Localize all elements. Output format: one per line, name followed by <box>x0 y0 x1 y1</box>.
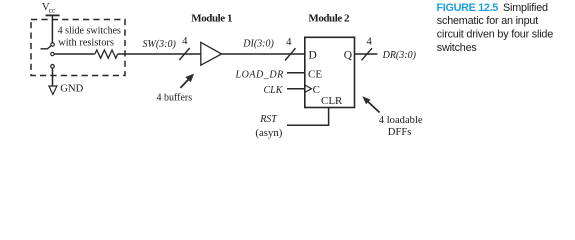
svg-text:Q: Q <box>344 49 353 61</box>
svg-text:DFFs: DFFs <box>388 127 412 138</box>
svg-text:CLR: CLR <box>321 95 343 107</box>
svg-text:switches: switches <box>437 42 478 54</box>
svg-text:GND: GND <box>60 83 83 94</box>
svg-text:D: D <box>309 49 317 61</box>
svg-text:FIGURE 12.5Simplified: FIGURE 12.5Simplified <box>437 2 549 14</box>
svg-text:Module 1: Module 1 <box>191 13 232 25</box>
svg-text:SW(3:0): SW(3:0) <box>143 39 177 50</box>
svg-text:DI(3:0): DI(3:0) <box>242 38 274 49</box>
svg-text:DR(3:0): DR(3:0) <box>382 50 417 61</box>
svg-text:Module 2: Module 2 <box>308 13 350 25</box>
svg-text:(asyn): (asyn) <box>255 127 282 139</box>
svg-text:C: C <box>313 84 320 96</box>
svg-text:4 buffers: 4 buffers <box>157 92 193 103</box>
svg-text:LOAD_DR: LOAD_DR <box>235 69 284 80</box>
svg-text:4 loadable: 4 loadable <box>379 115 423 126</box>
svg-text:4 slide switches: 4 slide switches <box>58 26 121 37</box>
svg-text:CE: CE <box>308 68 322 80</box>
svg-text:4: 4 <box>366 35 372 47</box>
svg-text:cc: cc <box>49 5 56 14</box>
svg-text:schematic for an input: schematic for an input <box>437 15 538 27</box>
svg-text:circuit driven by four slide: circuit driven by four slide <box>437 28 553 40</box>
svg-text:RST: RST <box>259 114 278 125</box>
svg-text:CLK: CLK <box>264 85 284 96</box>
svg-text:with resistors: with resistors <box>58 38 114 49</box>
svg-text:4: 4 <box>182 35 188 47</box>
svg-text:4: 4 <box>286 36 292 48</box>
